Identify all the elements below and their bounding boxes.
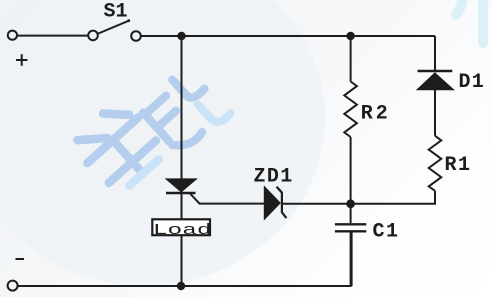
svg-text:R2: R2 (361, 103, 391, 126)
svg-text:ZD1: ZD1 (254, 166, 294, 189)
svg-text:R1: R1 (445, 154, 472, 177)
svg-text:Load: Load (153, 222, 212, 239)
svg-text:D1: D1 (459, 71, 485, 94)
svg-text:S1: S1 (104, 1, 128, 24)
svg-text:C1: C1 (373, 220, 400, 243)
